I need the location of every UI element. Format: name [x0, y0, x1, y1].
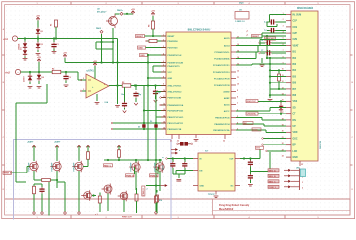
ground U6 out: [248, 185, 253, 187]
labels mid teal: [162, 156, 165, 170]
svg-text:C6: C6: [261, 40, 263, 42]
wire net58: [266, 57, 286, 59]
wire pin123: [111, 122, 166, 124]
label bank b: [54, 141, 61, 144]
ground U1: [95, 103, 100, 105]
wire out b: [131, 85, 166, 87]
diode D5: [279, 100, 283, 113]
svg-text:11: 11: [237, 77, 239, 79]
wire pin91: [156, 92, 166, 186]
IC U6 body: [198, 153, 235, 191]
junction row2 c: [65, 71, 67, 73]
wire bottom rail: [48, 182, 50, 216]
svg-text:5: 5: [163, 61, 164, 63]
svg-text:13: 13: [282, 87, 284, 89]
wire bus row2 left: [23, 71, 52, 73]
junction bus b: [100, 61, 102, 63]
power flag P4: [93, 61, 97, 66]
IC U5 body: [291, 11, 318, 161]
svg-text:5: 5: [283, 38, 284, 40]
svg-text:XTAL1/TOSC1: XTAL1/TOSC1: [168, 84, 183, 87]
svg-text:VL66: VL66: [253, 129, 259, 131]
wire U6 en: [176, 171, 193, 175]
title block box: [213, 199, 351, 215]
svg-text:6: 6: [283, 44, 284, 46]
op-amp U1: [86, 74, 109, 98]
svg-text:OSC: OSC: [293, 138, 298, 140]
wire R4 bottom: [152, 29, 154, 36]
tag net130: [252, 128, 261, 131]
svg-text:+1: +1: [246, 35, 248, 37]
svg-text:FDN340P: FDN340P: [154, 162, 157, 171]
resistor R8: [118, 150, 121, 158]
wire M3 stem: [78, 146, 80, 161]
tag PWM_D rotated: [142, 186, 145, 196]
svg-text:PB0/ICP1/CLKO: PB0/ICP1/CLKO: [168, 117, 184, 119]
resistor R4: [148, 21, 155, 29]
power flag P5: [131, 9, 135, 14]
wire row y160: [104, 159, 162, 161]
svg-text:R3: R3: [122, 82, 124, 84]
label U5: [297, 7, 314, 10]
wire pin72: [153, 71, 166, 73]
junction U6 a: [172, 157, 174, 159]
junction pad b: [112, 41, 114, 43]
tag PWMB: [126, 167, 135, 177]
label Q6: [154, 162, 157, 171]
wire net64: [269, 63, 286, 65]
label U5 value: [320, 140, 322, 149]
svg-text:1: 1: [283, 13, 284, 15]
svg-text:SEG_A: SEG_A: [269, 169, 277, 172]
junction out a: [116, 84, 118, 86]
label U1 pins: [83, 78, 105, 91]
svg-text:21: 21: [282, 137, 284, 139]
oscillator U3 box: [235, 12, 249, 20]
wire U1 vcc: [94, 66, 96, 78]
label U1: [87, 70, 95, 73]
capacitor C12: [248, 172, 253, 184]
svg-text:AGND: AGND: [223, 90, 230, 93]
svg-text:12: 12: [282, 81, 284, 83]
svg-text:7: 7: [163, 70, 164, 72]
svg-text:+BATT: +BATT: [27, 141, 34, 144]
ground row1 b: [36, 54, 41, 56]
ground C3b: [134, 103, 138, 105]
label Q2: [28, 162, 31, 171]
IC U4 bottom pins: [170, 135, 225, 143]
wire left rail: [16, 84, 47, 103]
svg-text:RESET: RESET: [136, 36, 144, 38]
svg-text:10n: 10n: [121, 94, 124, 96]
capacitor C1: [51, 39, 58, 52]
capacitor C8: [34, 184, 45, 212]
connector teal box: [300, 169, 305, 177]
svg-text:FDN340P: FDN340P: [51, 162, 54, 171]
wire U6 out: [240, 158, 256, 160]
svg-text:SEG_C: SEG_C: [269, 181, 277, 183]
svg-text:6: 6: [163, 64, 164, 66]
svg-text:C2N: C2N: [293, 39, 298, 41]
IC U4 body: [166, 32, 231, 135]
svg-text:VBAT: VBAT: [293, 44, 300, 47]
label U$1: [296, 168, 301, 170]
ground U6: [176, 180, 181, 182]
tag GND2: [140, 54, 148, 58]
wire U1 in-: [80, 79, 86, 81]
wire x52: [236, 46, 286, 53]
power flag P2: [37, 57, 41, 62]
junction Q7: [92, 194, 94, 196]
svg-text:12: 12: [237, 70, 239, 72]
svg-text:16: 16: [163, 127, 165, 129]
svg-text:C1P: C1P: [293, 21, 298, 23]
svg-text:3: 3: [163, 46, 164, 48]
junction upper link: [116, 61, 118, 63]
svg-text:D4: D4: [42, 76, 44, 79]
svg-text:15: 15: [163, 121, 165, 123]
svg-text:AVCC: AVCC: [224, 110, 230, 113]
ground row1 c: [52, 52, 57, 54]
junction out d: [154, 84, 156, 86]
wire x58: [236, 52, 286, 59]
wire net58 drop: [269, 58, 271, 96]
svg-text:9: 9: [163, 84, 164, 86]
tag RESET2: [252, 35, 263, 39]
tag net113: [246, 112, 258, 116]
capacitor C3b: [133, 86, 142, 103]
svg-text:CNV/SHC: CNV/SHC: [247, 114, 257, 116]
pad bottom e: [155, 211, 158, 214]
wire M2 stem: [56, 146, 58, 161]
wire R14 down: [155, 186, 157, 212]
svg-text:DIS1C06-E884: DIS1C06-E884: [297, 7, 314, 10]
svg-text:(A-D): (A-D): [162, 165, 165, 170]
wire M3 down: [78, 171, 80, 212]
svg-text:UP: UP: [293, 126, 297, 128]
wire Q7: [92, 195, 96, 197]
wire Q6 down: [159, 172, 161, 192]
junction row1 b: [37, 37, 39, 39]
label U3: [235, 10, 245, 24]
pad bottom a: [33, 212, 36, 215]
wire net144: [262, 144, 286, 146]
capacitor C5: [264, 28, 286, 33]
ground row2 a: [28, 87, 33, 89]
power flag M2: [55, 145, 59, 148]
wire Q1 top: [115, 13, 133, 15]
label V2: [5, 72, 11, 75]
svg-text:4TL(AC)?: 4TL(AC)?: [97, 10, 107, 13]
svg-text:PWM_A: PWM_A: [4, 172, 12, 175]
wire net138: [262, 138, 286, 140]
svg-text:GND: GND: [200, 185, 205, 187]
junction R4: [152, 35, 154, 37]
svg-text:PC2/ADC2/PCI10: PC2/ADC2/PCI10: [213, 71, 230, 74]
wire gate2b: [50, 171, 57, 180]
svg-text:PD7/AIN1/PCI23: PD7/AIN1/PCI23: [168, 109, 185, 112]
svg-text:17: 17: [282, 112, 284, 114]
svg-text:PB2/SS/OC1B: PB2/SS/OC1B: [168, 129, 182, 131]
svg-text:10: 10: [282, 69, 284, 71]
ground mid b: [268, 96, 273, 101]
wire U1 out: [109, 85, 122, 87]
diode D3: [36, 39, 43, 53]
svg-text:s 1: s 1: [95, 214, 98, 216]
svg-text:PD0/RXD0: PD0/RXD0: [168, 41, 179, 43]
svg-text:PAD2: PAD2: [96, 27, 101, 30]
junction Q1 top: [126, 13, 128, 15]
svg-text:20: 20: [282, 131, 284, 133]
svg-text:11: 11: [282, 75, 284, 77]
wire pin78: [147, 77, 166, 79]
label Q5: [130, 162, 133, 171]
junction U6 b: [184, 157, 186, 159]
svg-text:2: 2: [83, 78, 84, 80]
svg-text:7: 7: [283, 50, 284, 52]
svg-text:2: 2: [163, 39, 164, 41]
IC U5 left pins: [282, 13, 302, 159]
svg-text:RESET: RESET: [168, 36, 176, 38]
svg-text:11: 11: [163, 96, 165, 98]
wire R4 top: [152, 16, 154, 21]
svg-text:LCD: LCD: [293, 151, 298, 153]
wire net95: [269, 94, 286, 96]
svg-text:15: 15: [282, 100, 284, 102]
resistor R5: [146, 39, 166, 42]
junction out c: [135, 84, 137, 86]
svg-text:18: 18: [282, 118, 284, 120]
mosfet Q4: [72, 161, 83, 172]
svg-text:+in1: +in1: [3, 38, 9, 41]
svg-text:10: 10: [237, 83, 239, 85]
wire reset2: [262, 35, 286, 37]
wire x117: [236, 118, 286, 120]
svg-text:21: 21: [170, 141, 172, 143]
wire U6 aux: [250, 152, 270, 172]
IC U6 pins: [193, 158, 240, 187]
svg-text:3: 3: [83, 89, 84, 91]
diode D2: [23, 49, 27, 59]
wire U6 gnd link: [173, 174, 185, 178]
zener ZD1: [23, 72, 33, 84]
capacitor C10: [182, 159, 187, 175]
ground out: [115, 106, 120, 108]
junction bus a: [112, 61, 114, 63]
connector pin numbers: [302, 171, 303, 190]
wire x45: [236, 39, 286, 45]
svg-text:GND: GND: [140, 55, 145, 57]
resistor R12: [135, 188, 138, 213]
junction y160 d: [147, 159, 157, 161]
wire left rail drop: [15, 103, 17, 182]
junction U6 d: [249, 157, 251, 159]
junction mid rail: [147, 61, 149, 86]
svg-text:7: 7: [237, 103, 238, 105]
svg-text:3: 3: [283, 25, 284, 27]
lavender region outline: [14, 140, 172, 220]
wire Q1 down: [112, 28, 114, 63]
power flag P3: [63, 52, 67, 57]
svg-text:D0: D0: [41, 31, 43, 33]
power flag P6: [151, 10, 155, 15]
tag net101: [246, 100, 258, 104]
svg-text:R4: R4: [148, 25, 151, 27]
svg-text:23: 23: [223, 141, 225, 143]
svg-text:C2P: C2P: [293, 33, 298, 35]
wire bus row2 mid: [61, 72, 82, 80]
junction y160 c: [159, 159, 161, 161]
wire mid rail: [147, 55, 149, 160]
svg-text:16: 16: [282, 106, 284, 108]
junction out b: [134, 84, 136, 86]
svg-text:ADC6: ADC6: [224, 103, 231, 106]
wire net89: [270, 88, 286, 90]
svg-text:R1: R1: [51, 24, 53, 26]
label U4: [188, 28, 211, 32]
tag SOSC: [265, 37, 276, 41]
svg-text:PC0/ADC0/PCI8: PC0/ADC0/PCI8: [214, 84, 230, 87]
svg-text:PWM_C: PWM_C: [150, 175, 158, 177]
connector tags: [268, 169, 279, 189]
wire bus row1: [20, 38, 118, 40]
svg-text:13: 13: [163, 109, 165, 111]
diode D0: [36, 28, 43, 36]
svg-text:VSS: VSS: [293, 101, 298, 103]
svg-text:1-2835.1.0: 1-2835.1.0: [235, 21, 245, 23]
mosfet Q9: [118, 191, 128, 202]
wire R8 stem: [118, 146, 120, 150]
svg-text:22: 22: [177, 141, 179, 143]
label bank a: [27, 141, 34, 144]
svg-text:ZD4V7: ZD4V7: [23, 76, 26, 82]
svg-text:C2: C2: [69, 77, 71, 79]
wire pin62: [148, 62, 166, 64]
junctions bridge: [143, 122, 157, 130]
connector spine: [291, 169, 300, 191]
svg-text:PWM_OUT: PWM_OUT: [122, 217, 133, 219]
svg-text:XTAL2/TOSC2: XTAL2/TOSC2: [168, 90, 183, 93]
wire R7 stem: [87, 146, 89, 152]
IC U4 right pins: [213, 36, 239, 132]
capacitor C7: [259, 50, 286, 55]
svg-text:22: 22: [282, 143, 284, 145]
tag REDC: [104, 164, 113, 168]
svg-text:12: 12: [163, 103, 165, 105]
svg-text:RED_C: RED_C: [104, 165, 112, 167]
svg-text:PB3/MOSI/OC2A: PB3/MOSI/OC2A: [213, 129, 230, 132]
svg-text:2: 2: [283, 19, 284, 21]
wire net101: [258, 100, 286, 102]
wire P1 stem: [37, 21, 39, 39]
svg-text:PAD1+: PAD1+: [117, 9, 124, 12]
svg-text:DQG: DQG: [239, 2, 244, 4]
svg-text:3: 3: [302, 182, 303, 184]
voltage source V1: [12, 36, 20, 41]
ground C3: [123, 111, 127, 113]
net arrows upper: [171, 148, 181, 154]
wire pin117: [156, 116, 166, 118]
ground U4: [194, 135, 199, 142]
svg-text:TPS/17: TPS/17: [208, 194, 216, 196]
wire net151: [266, 150, 286, 152]
resistor R11: [98, 193, 101, 213]
svg-text:SEG_B: SEG_B: [269, 176, 277, 178]
mosfet Q6: [153, 161, 164, 172]
svg-text:PD2/INT0/CLK: PD2/INT0/CLK: [168, 55, 182, 57]
pad PAD2: [96, 27, 103, 33]
label U6: [205, 151, 216, 196]
svg-text:GND: GND: [138, 48, 143, 50]
power flag M3: [77, 145, 81, 148]
svg-text:14: 14: [163, 114, 165, 117]
label DQG: [239, 2, 244, 4]
svg-text:DIS1C06: DIS1C06: [320, 140, 322, 149]
wire row1 drop: [117, 39, 119, 63]
resistor R14: [155, 196, 163, 203]
svg-text:PD5/T1/OC0B: PD5/T1/OC0B: [168, 97, 182, 99]
junction row1 a: [24, 37, 26, 39]
wire gnd1: [146, 47, 167, 49]
transistor Q1: [106, 14, 118, 29]
label Q3: [51, 162, 54, 171]
wire reset: [145, 35, 167, 37]
connector arrows: [284, 169, 291, 188]
junction y160 a: [107, 159, 120, 161]
svg-text:AREF: AREF: [224, 97, 230, 100]
ground C3c: [154, 100, 158, 102]
svg-text:2: 2: [147, 189, 148, 191]
mosfet Q5: [129, 161, 140, 172]
svg-text:PB4/MISO/PCI4: PB4/MISO/PCI4: [214, 123, 230, 126]
mosfet Q7: [81, 190, 91, 201]
bridge diode DB1: [138, 124, 146, 128]
label U1A: [105, 101, 109, 104]
svg-text:8: 8: [283, 56, 284, 58]
wire U1 in+: [80, 90, 86, 92]
pad bottom c: [57, 182, 66, 214]
svg-text:PB1/OC1A/PCI1: PB1/OC1A/PCI1: [168, 122, 184, 125]
wire U1 vee: [96, 94, 98, 101]
wire xtal2: [143, 86, 166, 130]
svg-text:8: 8: [237, 96, 238, 98]
svg-text:+in2: +in2: [5, 72, 11, 75]
wire net77: [269, 75, 286, 77]
wire Q8 down: [107, 193, 109, 211]
wire R8 down: [118, 157, 120, 160]
wire pad links: [96, 42, 113, 49]
svg-text:FDN340P: FDN340P: [73, 162, 76, 171]
svg-text:10: 10: [163, 90, 165, 92]
svg-text:uA741: uA741: [87, 70, 95, 73]
wire net83: [269, 82, 286, 84]
svg-text:8: 8: [163, 76, 164, 78]
svg-text:PWM_B: PWM_B: [126, 175, 134, 177]
wire gate1: [12, 167, 30, 173]
tag gate1: [3, 171, 12, 175]
label U2: [97, 9, 107, 14]
svg-text:R2: R2: [52, 69, 54, 71]
svg-text:PC5/ADC5/SCL: PC5/ADC5/SCL: [214, 51, 230, 54]
svg-text:GND: GND: [168, 78, 173, 80]
svg-text:RevA0012: RevA0012: [219, 207, 234, 211]
ground mid a: [260, 58, 265, 67]
svg-text:PD1/TXD0: PD1/TXD0: [168, 47, 179, 49]
svg-text:1: 1: [163, 34, 164, 36]
svg-text:IN_SUM: IN_SUM: [293, 14, 302, 16]
svg-text:+BATT: +BATT: [54, 141, 61, 144]
power flag P1: [36, 15, 40, 20]
